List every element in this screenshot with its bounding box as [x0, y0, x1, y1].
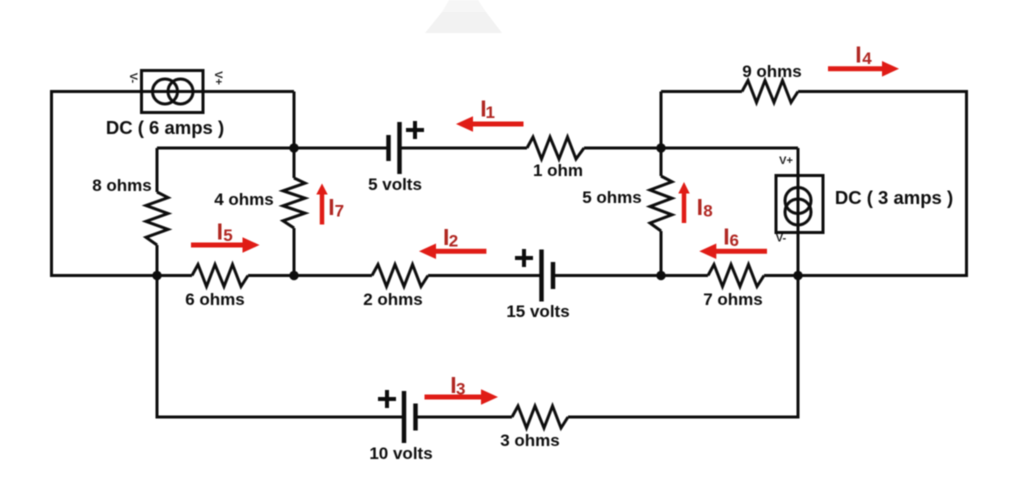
resistor 9 ohms — [742, 81, 798, 103]
svg-text:6: 6 — [730, 231, 739, 250]
wire lower-mid horizontal segment 5 — [764, 274, 967, 277]
wire 5-ohm branch bottom stub — [660, 231, 663, 277]
svg-text:DC ( 6 amps ): DC ( 6 amps ) — [106, 117, 224, 138]
svg-text:I: I — [217, 219, 223, 245]
svg-text:5 ohms: 5 ohms — [582, 188, 642, 207]
svg-text:V+: V+ — [779, 155, 793, 167]
junction node B — [289, 143, 298, 152]
wire bottom horizontal middle segment — [416, 416, 513, 419]
current arrow I2 — [419, 244, 486, 260]
wire mid horizontal left segment — [157, 147, 389, 150]
label I3 — [450, 372, 465, 399]
wire bottom horizontal right segment — [568, 416, 798, 419]
wire right outer vertical — [965, 90, 968, 277]
label I4 — [855, 42, 872, 69]
wire 3A source branch vertical — [797, 148, 800, 277]
wire vertical from top-right wire down to node C — [660, 92, 663, 149]
resistor 1 ohm — [527, 137, 584, 159]
svg-text:V-: V- — [776, 233, 787, 245]
svg-text:V+: V+ — [212, 71, 224, 85]
svg-text:DC ( 3 amps ): DC ( 3 amps ) — [835, 187, 953, 208]
svg-text:3: 3 — [456, 380, 465, 399]
resistor 5 ohms — [650, 176, 672, 231]
label I1 — [480, 96, 495, 123]
current arrow I7 — [316, 184, 327, 225]
svg-text:2 ohms: 2 ohms — [363, 290, 423, 309]
label I8 — [697, 194, 713, 221]
wire mid horizontal between 5 volts and 1 ohm — [400, 147, 528, 150]
resistor 2 ohms — [372, 265, 428, 287]
svg-text:6 ohms: 6 ohms — [185, 290, 245, 309]
wire 5-ohm branch top stub — [660, 148, 663, 176]
svg-text:5 volts: 5 volts — [368, 175, 422, 194]
current arrow I4 — [828, 61, 899, 77]
wire top-left horizontal — [50, 90, 294, 93]
wire top-right horizontal right segment — [798, 90, 967, 93]
battery 5 volts — [389, 121, 425, 174]
current arrow I6 — [699, 244, 767, 260]
svg-text:3 ohms: 3 ohms — [500, 431, 560, 450]
resistor 8 ohms — [146, 192, 168, 245]
wire bottom-left vertical — [156, 276, 159, 419]
label I5 — [217, 219, 233, 246]
battery 10 volts — [378, 390, 416, 443]
svg-text:7: 7 — [335, 202, 344, 221]
wire 4-ohm branch bottom stub — [293, 228, 296, 277]
svg-text:8: 8 — [703, 202, 712, 221]
svg-text:5: 5 — [223, 226, 232, 245]
current arrow I3 — [425, 389, 499, 405]
wire lower-mid horizontal far left segment — [52, 274, 193, 277]
svg-text:9 ohms: 9 ohms — [742, 62, 802, 81]
svg-text:I: I — [697, 194, 703, 220]
junction node D — [152, 271, 161, 280]
current source U1 DC 6 amps — [142, 71, 204, 113]
svg-text:I: I — [855, 42, 861, 68]
label I6 — [723, 224, 739, 250]
resistor 4 ohms — [283, 178, 305, 228]
wire lower-mid horizontal segment 4 — [553, 274, 708, 277]
svg-text:1 ohm: 1 ohm — [533, 161, 583, 180]
wire bottom horizontal left segment — [157, 416, 404, 419]
wire lower-mid horizontal segment 2 — [248, 274, 372, 277]
label I7 — [328, 194, 344, 221]
wire 4-ohm branch top stub — [293, 148, 296, 178]
current arrow I8 — [678, 182, 689, 223]
watermark shape top center — [425, 0, 502, 33]
resistor 6 ohms — [192, 265, 248, 287]
junction node G — [793, 271, 802, 280]
wire top-right horizontal left segment — [661, 90, 742, 93]
current arrow I5 — [191, 237, 260, 253]
resistor 7 ohms — [708, 265, 764, 287]
svg-text:7 ohms: 7 ohms — [703, 290, 763, 309]
wire 8-ohm branch bottom stub — [156, 245, 159, 277]
wire mid horizontal right segment — [584, 147, 798, 150]
resistor 3 ohms — [512, 406, 568, 428]
svg-text:1: 1 — [486, 103, 495, 122]
svg-text:8 ohms: 8 ohms — [92, 176, 152, 195]
svg-text:15 volts: 15 volts — [506, 302, 569, 321]
wire lower-mid horizontal segment 3 — [428, 274, 542, 277]
junction node F — [656, 271, 665, 280]
battery 15 volts — [515, 249, 553, 302]
svg-text:V-: V- — [127, 73, 139, 84]
junction node C — [656, 143, 665, 152]
svg-text:10 volts: 10 volts — [369, 444, 432, 463]
svg-text:4: 4 — [862, 49, 872, 68]
svg-text:4 ohms: 4 ohms — [214, 190, 274, 209]
current source U2 DC 3 amps — [776, 176, 823, 233]
wire 8-ohm branch top stub — [156, 148, 159, 192]
wire bottom-right vertical — [797, 276, 800, 419]
wire vertical from top-left wire down to node B — [293, 92, 296, 149]
wire left outer vertical — [50, 90, 53, 277]
current arrow I1 — [456, 116, 524, 132]
label I2 — [443, 224, 458, 251]
junction node E — [289, 271, 298, 280]
svg-text:2: 2 — [449, 232, 458, 251]
